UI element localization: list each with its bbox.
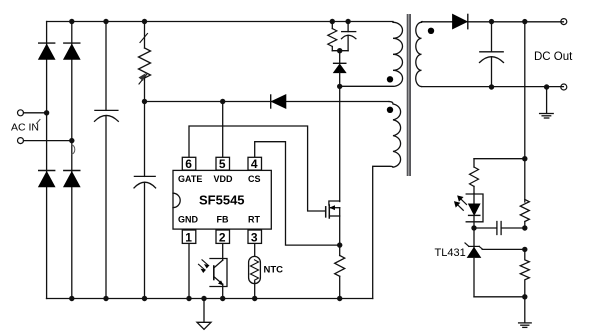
svg-text:6: 6 [185, 157, 192, 171]
wire CS line from pin4 [255, 142, 340, 245]
node LED cathode junction [471, 225, 476, 230]
wire secondary return line [422, 86, 564, 88]
node top rail col2 [69, 19, 74, 24]
node output cap top [489, 19, 494, 24]
terminal AC line 2 [18, 138, 72, 144]
node ground stem rail [201, 296, 206, 301]
svg-text:3: 3 [251, 230, 258, 244]
node NTC rail [252, 296, 257, 301]
node C1 bottom rail [103, 296, 108, 301]
wire snubber bottom join [332, 50, 348, 52]
node snubber C top [345, 19, 350, 24]
pin 2 box [216, 230, 230, 244]
svg-text:SF5545: SF5545 [199, 193, 245, 208]
optocoupler U2 LED [466, 194, 483, 229]
node clamp to primary bottom [337, 84, 342, 89]
pin 6 box [182, 157, 196, 171]
wire primary bottom [340, 85, 393, 87]
opto light arrows (toward transistor) [199, 260, 209, 272]
terminal DC out plus [561, 19, 567, 25]
node AC2 junction [69, 138, 74, 143]
svg-text:5: 5 [219, 157, 226, 171]
diode D6 (clamp, pointing up) [334, 51, 346, 87]
capacitor C2 (VDD bulk) [134, 102, 156, 299]
node feedback tap top [522, 19, 527, 24]
wire pin1 to ground rail [188, 244, 190, 299]
svg-text:DC Out: DC Out [534, 51, 573, 63]
node output ground tap [544, 84, 549, 89]
diode D4 [64, 171, 80, 187]
node opto emitter rail [220, 296, 225, 301]
node sense resistor rail [337, 296, 342, 301]
resistor R2 (snubber) [328, 22, 337, 51]
wire feedback vertical [524, 22, 526, 202]
wire bridge column 1 [46, 22, 48, 299]
capacitor C5 (feedback comp) [474, 222, 525, 235]
node pin5 tap [220, 99, 225, 104]
node VDD line left [142, 99, 147, 104]
resistor R6 (divider lower) [520, 249, 529, 296]
phase dot auxiliary [387, 107, 393, 113]
svg-text:4: 4 [251, 157, 258, 171]
terminal DC out minus [561, 84, 567, 90]
LED light arrows (emitting) [455, 196, 467, 210]
node comp cap right [522, 225, 527, 230]
diode D5 (VDD rectifier, pointing left) [271, 95, 286, 108]
node C2 bottom rail [142, 296, 147, 301]
transformer T1 secondary winding [416, 22, 422, 86]
wire TL431 ref line [482, 248, 525, 250]
node pin1 rail [186, 296, 191, 301]
ground primary (open triangle) [197, 299, 211, 330]
wire feedback branch to opto [474, 158, 525, 160]
wire bottom primary ground rail [47, 298, 373, 300]
wire VDD line [145, 101, 390, 103]
node CS sense [337, 242, 342, 247]
svg-text:FB: FB [217, 214, 229, 224]
transistor Q1 MOSFET [326, 201, 340, 245]
resistor R3 (current sense) [335, 245, 345, 298]
node output cap bottom [489, 84, 494, 89]
phase dot secondary [428, 28, 434, 34]
ground secondary feedback (earth) [519, 297, 532, 328]
transformer T1 primary winding [340, 22, 403, 86]
capacitor C1 (input filter) [95, 22, 119, 299]
svg-text:RT: RT [248, 214, 260, 224]
diode D1 [39, 43, 55, 59]
diode D2 [64, 43, 80, 59]
svg-text:CS: CS [248, 174, 261, 184]
wire gate line from pin6 [189, 126, 326, 211]
thermistor NTC [249, 244, 261, 299]
op-amp U1 SF5545 body [173, 170, 271, 229]
svg-text:GATE: GATE [178, 174, 202, 184]
resistor R5 (divider upper) [520, 200, 529, 229]
node AC1 junction [44, 110, 49, 115]
wire pin5 VDD vertical [222, 102, 224, 158]
wire hop artifact below AC2 junction [72, 145, 75, 154]
phase dot primary [387, 76, 393, 82]
terminal AC line 1 [18, 110, 47, 116]
svg-text:GND: GND [178, 214, 199, 224]
diode D3 [39, 171, 55, 187]
node snubber R top [330, 19, 335, 24]
node feedback branch [522, 156, 527, 161]
transformer T1 auxiliary winding [373, 102, 401, 299]
resistor R4 (opto series) [470, 159, 479, 194]
pin 4 box [248, 157, 262, 171]
pin 5 box [216, 157, 230, 171]
diode D7 (output rectifier) [453, 14, 468, 28]
capacitor C3 (snubber) [342, 22, 356, 51]
svg-text:1: 1 [185, 230, 192, 244]
svg-text:NTC: NTC [264, 264, 284, 275]
resistor R1 (startup) [139, 22, 151, 102]
node top rail startup resistor [142, 19, 147, 24]
pin 3 box [248, 230, 262, 244]
node col2 bottom rail [69, 296, 74, 301]
node ref junction [522, 247, 527, 252]
svg-text:TL431: TL431 [435, 247, 466, 259]
wire top rail [47, 21, 393, 23]
optocoupler U2 phototransistor [210, 244, 227, 299]
node snubber bottom [337, 48, 342, 53]
wire secondary top line [422, 21, 564, 23]
node TL431 anode junction [522, 294, 527, 299]
wire bridge column 2 [71, 22, 73, 299]
node top rail xcap [103, 19, 108, 24]
capacitor C4 (output) [480, 22, 504, 87]
wire drain vertical [339, 86, 341, 201]
svg-text:AC IN: AC IN [11, 122, 39, 134]
shunt regulator TL431 [465, 228, 525, 297]
svg-text:VDD: VDD [214, 174, 234, 184]
svg-text:2: 2 [219, 230, 226, 244]
pin 1 box [182, 230, 196, 244]
ground secondary output (earth) [540, 87, 554, 118]
transformer core [407, 14, 411, 176]
